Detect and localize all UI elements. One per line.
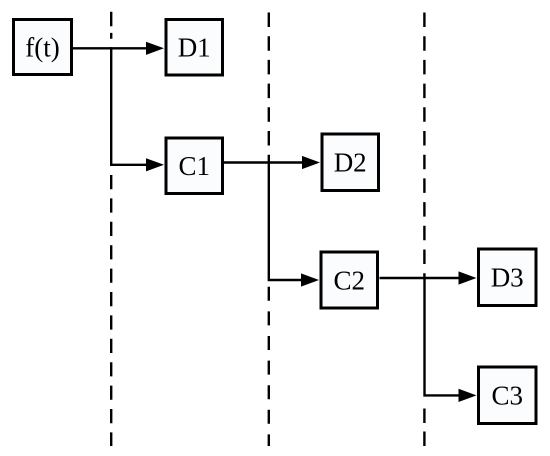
svg-text:C2: C2 <box>333 266 365 296</box>
svg-text:D2: D2 <box>334 148 367 178</box>
svg-text:C1: C1 <box>178 151 210 181</box>
svg-text:D1: D1 <box>178 33 211 63</box>
svg-text:D3: D3 <box>491 263 524 293</box>
svg-text:f(t): f(t) <box>25 33 59 63</box>
svg-text:C3: C3 <box>491 381 523 411</box>
